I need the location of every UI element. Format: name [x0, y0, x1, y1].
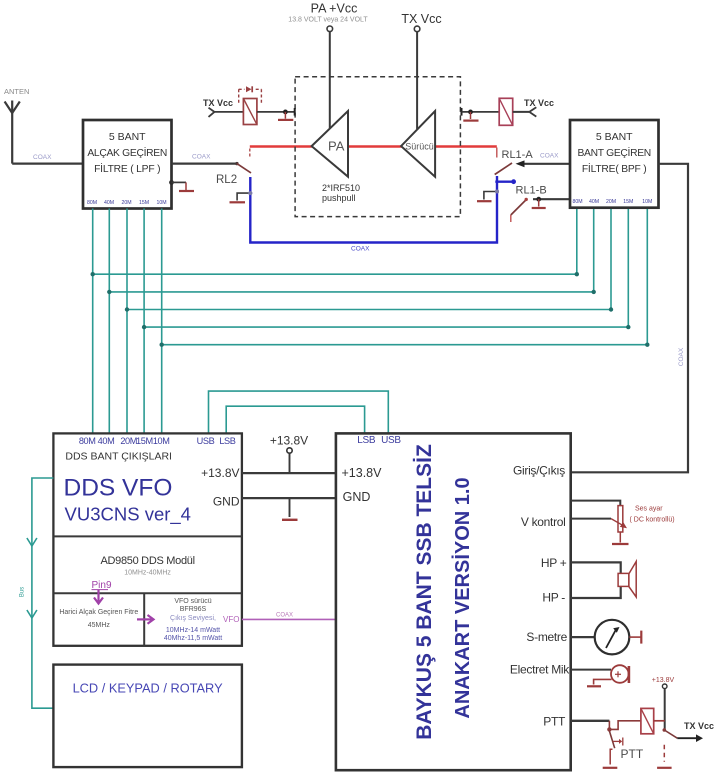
ground at K2: [470, 112, 472, 119]
meter S-metre: [571, 636, 595, 638]
node RL2 bracket junction: [248, 191, 252, 195]
svg-text:LSB: LSB: [357, 435, 376, 446]
svg-text:DDS BANT ÇIKIŞLARI: DDS BANT ÇIKIŞLARI: [65, 451, 172, 463]
teal band wire 10M horizontal run: [162, 344, 648, 346]
arrow to VFO driver: [137, 618, 152, 620]
svg-text:+13.8V: +13.8V: [652, 677, 675, 684]
svg-text:PTT: PTT: [543, 715, 566, 729]
svg-text:BFR96S: BFR96S: [180, 606, 207, 613]
RL2 TX contact stub: [249, 149, 251, 158]
svg-text:VU3CNS ver_4: VU3CNS ver_4: [65, 504, 191, 526]
relay switch RL1-B arm: [511, 200, 526, 215]
microphone Electret: [571, 669, 611, 671]
svg-text:Giriş/Çıkış: Giriş/Çıkış: [513, 464, 565, 478]
svg-text:USB: USB: [381, 435, 401, 446]
svg-text:RL1-B: RL1-B: [516, 185, 547, 197]
node RL1-B bracket junction: [495, 190, 499, 194]
potentiometer volume (Ses ayar): [571, 501, 621, 506]
teal band wire 80M horizontal run: [93, 273, 577, 275]
svg-text:+13.8V: +13.8V: [270, 434, 308, 448]
svg-text:TX Vcc: TX Vcc: [401, 12, 441, 26]
svg-text:pushpull: pushpull: [322, 193, 356, 203]
wire BPF to RL1-A (COAX, arrow): [522, 163, 570, 165]
svg-text:LCD / KEYPAD / ROTARY: LCD / KEYPAD / ROTARY: [73, 681, 224, 696]
svg-text:20M: 20M: [120, 436, 137, 446]
wire red TX line: [250, 145, 497, 147]
wire +13.8V DDS to board: [242, 472, 336, 474]
wire relay K1 to PA box: [257, 111, 295, 113]
svg-text:80M: 80M: [87, 200, 97, 206]
svg-text:VFO: VFO: [223, 615, 239, 624]
svg-text:COAX: COAX: [678, 347, 685, 366]
relay coil K2 (right): [461, 108, 463, 116]
LPF box: [83, 120, 172, 209]
ground at microphone: [594, 679, 612, 684]
svg-text:15M: 15M: [623, 199, 633, 205]
wire GND DDS to board: [242, 497, 336, 499]
svg-text:10M: 10M: [642, 199, 652, 205]
svg-text:40M: 40M: [589, 199, 599, 205]
wire USB link (DDS to board): [209, 391, 389, 433]
svg-text:Sürücü: Sürücü: [405, 142, 434, 152]
svg-text:Electret Mik: Electret Mik: [510, 663, 570, 677]
mainboard box: [336, 433, 571, 770]
svg-text:COAX: COAX: [33, 154, 52, 161]
svg-text:COAX: COAX: [351, 246, 370, 253]
svg-text:ALÇAK GEÇİREN: ALÇAK GEÇİREN: [87, 146, 167, 159]
ground on GND rail: [289, 498, 291, 517]
PA +Vcc supply terminal: [329, 32, 331, 128]
svg-text:TX Vcc: TX Vcc: [524, 98, 554, 108]
wire blue RX coax path: [250, 177, 497, 243]
node K2 junction: [468, 110, 473, 115]
svg-text:ANTEN: ANTEN: [4, 87, 29, 96]
ground bracket at RL1 RX line: [484, 192, 497, 200]
RL2 ground bracket on RX line: [237, 193, 250, 200]
PA module dashed box: [295, 77, 460, 217]
teal band wire 20M horizontal run: [127, 309, 611, 311]
svg-text:13.8 VOLT veya 24 VOLT: 13.8 VOLT veya 24 VOLT: [288, 17, 368, 24]
svg-text:COAX: COAX: [540, 153, 559, 160]
svg-text:+13.8V: +13.8V: [342, 466, 383, 480]
DDS VFO box: [53, 433, 242, 645]
ground at potentiometer: [619, 532, 621, 543]
wire antenna to LPF (COAX): [12, 163, 83, 165]
svg-text:15M: 15M: [139, 200, 149, 206]
svg-text:40M: 40M: [98, 436, 115, 446]
svg-text:PA: PA: [328, 139, 345, 154]
LCD KEYPAD box: [53, 665, 242, 768]
svg-text:FİLTRE ( LPF ): FİLTRE ( LPF ): [94, 162, 160, 175]
svg-text:PTT: PTT: [621, 747, 644, 761]
svg-text:FİLTRE( BPF ): FİLTRE( BPF ): [582, 162, 647, 175]
BPF box: [570, 120, 659, 208]
svg-text:PA +Vcc: PA +Vcc: [311, 2, 358, 16]
svg-text:Bus: Bus: [20, 587, 26, 597]
svg-text:Çıkış Seviyesi,: Çıkış Seviyesi,: [170, 615, 216, 622]
svg-text:15M: 15M: [136, 436, 153, 446]
diode D1 snubber (dashed): [239, 89, 262, 104]
svg-text:40M: 40M: [104, 200, 114, 206]
svg-text:GND: GND: [213, 495, 240, 509]
teal band wire 40M horizontal run: [109, 291, 593, 293]
ground at K1: [284, 112, 286, 119]
svg-text:HP +: HP +: [541, 556, 567, 570]
svg-text:80M: 80M: [572, 199, 582, 205]
svg-text:10M: 10M: [156, 200, 166, 206]
svg-text:20M: 20M: [606, 199, 616, 205]
ground at RL1-B: [538, 199, 540, 206]
teal band wire 40M vertical: [108, 209, 110, 434]
ground below relay switch (dashed): [663, 745, 665, 762]
svg-text:BAYKUŞ 5 BANT SSB TELSİZ: BAYKUŞ 5 BANT SSB TELSİZ: [413, 444, 436, 740]
svg-text:S-metre: S-metre: [526, 630, 567, 644]
teal band wire 80M vertical (LPF to DDS): [92, 209, 94, 434]
wire LPF to RL2 (COAX): [172, 163, 237, 165]
svg-text:5 BANT: 5 BANT: [596, 131, 633, 143]
svg-text:USB: USB: [197, 436, 215, 446]
node K1 junction: [283, 110, 288, 115]
wire RL1-B pole to BPF: [533, 198, 570, 200]
wire LSB link (DDS to board): [226, 406, 364, 433]
relay coil K3 (PTT): [641, 708, 654, 733]
svg-text:+13.8V: +13.8V: [201, 466, 239, 480]
LPF right lower port ground: [169, 180, 174, 185]
teal band wire 15M horizontal run: [144, 326, 628, 328]
svg-text:COAX: COAX: [276, 613, 293, 619]
svg-text:10MHz-40MHz: 10MHz-40MHz: [124, 570, 171, 577]
switch PTT manual: [609, 731, 614, 748]
svg-text:45MHz: 45MHz: [88, 622, 111, 629]
teal band wire 10M vertical: [161, 209, 163, 434]
relay switch RL1-B pole: [495, 180, 513, 182]
svg-text:5 BANT: 5 BANT: [109, 131, 146, 143]
svg-text:ANAKART VERSİYON 1.0: ANAKART VERSİYON 1.0: [451, 477, 474, 718]
wire PTT from board: [571, 720, 610, 722]
svg-text:( DC kontrollü): ( DC kontrollü): [630, 517, 675, 524]
svg-text:BANT GEÇİREN: BANT GEÇİREN: [577, 146, 650, 159]
junction dots band bus: [91, 272, 650, 347]
svg-text:LSB: LSB: [219, 436, 235, 446]
svg-text:VFO sürücü: VFO sürücü: [174, 598, 211, 605]
svg-text:GND: GND: [343, 490, 371, 504]
antenna ANT: [5, 101, 20, 164]
svg-text:10MHz-14 mWatt: 10MHz-14 mWatt: [166, 627, 220, 634]
relay switch TX Vcc out: [663, 728, 667, 732]
svg-text:COAX: COAX: [192, 154, 211, 161]
teal band wire 20M vertical: [126, 209, 128, 434]
wire BPF to Giris/Cikis (COAX): [571, 164, 688, 473]
svg-text:RL1-A: RL1-A: [502, 149, 534, 161]
svg-text:AD9850 DDS Modül: AD9850 DDS Modül: [100, 555, 194, 567]
relay switch RL2: [235, 162, 238, 165]
svg-text:DDS VFO: DDS VFO: [64, 475, 173, 502]
relay switch RL1-A: [496, 148, 498, 158]
svg-text:TX Vcc: TX Vcc: [203, 98, 233, 108]
bus wire to LCD: [32, 478, 54, 708]
speaker HP: [571, 562, 621, 573]
amplifier Surucu: [401, 111, 435, 177]
svg-text:V kontrol: V kontrol: [521, 515, 566, 529]
svg-text:Harici Alçak Geçiren Fitre: Harici Alçak Geçiren Fitre: [59, 609, 138, 616]
svg-text:HP -: HP -: [542, 591, 565, 605]
svg-text:Ses ayar: Ses ayar: [635, 506, 663, 513]
svg-text:20M: 20M: [121, 200, 131, 206]
svg-text:2*IRF510: 2*IRF510: [322, 183, 360, 193]
svg-text:80M: 80M: [79, 436, 96, 446]
svg-text:TX Vcc: TX Vcc: [684, 721, 714, 731]
svg-text:RL2: RL2: [216, 174, 237, 186]
svg-text:10M: 10M: [153, 436, 170, 446]
svg-text:40Mhz-11,5 mWatt: 40Mhz-11,5 mWatt: [164, 635, 222, 642]
amplifier PA: [312, 111, 348, 177]
TX Vcc supply terminal: [416, 32, 418, 129]
teal band wire BPF verticals: [577, 208, 648, 345]
teal band wire 15M vertical: [143, 209, 145, 434]
